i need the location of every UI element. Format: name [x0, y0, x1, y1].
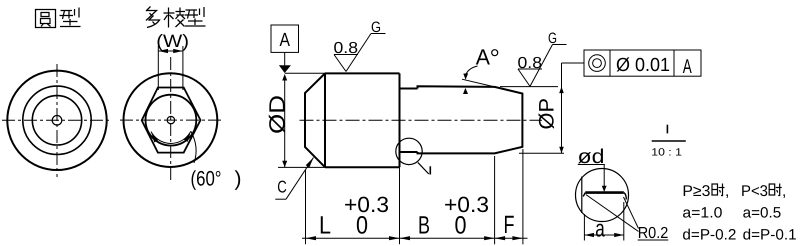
svg-text:P≥3: P≥3	[682, 183, 710, 200]
svg-text:ØP: ØP	[536, 98, 559, 130]
svg-text:(60°: (60°	[191, 168, 222, 191]
svg-text:P<3: P<3	[741, 183, 768, 200]
svg-text:10 : 1: 10 : 1	[651, 147, 682, 159]
svg-text:a=0.5: a=0.5	[743, 205, 782, 222]
svg-text:(W): (W)	[156, 31, 189, 51]
svg-text:0.8: 0.8	[518, 55, 543, 72]
svg-text:,: ,	[725, 183, 729, 200]
svg-text:ød: ød	[578, 146, 605, 168]
svg-text:C: C	[277, 178, 287, 197]
svg-text:L: L	[319, 212, 331, 240]
svg-text:a=1.0: a=1.0	[682, 205, 722, 222]
svg-text:ØD: ØD	[265, 95, 290, 134]
svg-text:A: A	[683, 56, 692, 78]
svg-text:Ø 0.01: Ø 0.01	[616, 55, 670, 76]
svg-text:B: B	[418, 212, 430, 240]
svg-text:d=P-0.2: d=P-0.2	[682, 227, 736, 244]
svg-text:A: A	[476, 45, 491, 70]
svg-text:G: G	[371, 19, 381, 36]
svg-text:a: a	[595, 216, 605, 243]
svg-text:+0.3: +0.3	[444, 192, 489, 217]
svg-text:R0.2: R0.2	[638, 225, 669, 242]
svg-text:d=P-0.1: d=P-0.1	[743, 227, 797, 244]
svg-text:0: 0	[455, 212, 467, 240]
svg-text:F: F	[504, 211, 515, 239]
svg-text:A: A	[280, 30, 291, 51]
svg-text:0.8: 0.8	[334, 40, 359, 57]
svg-text:0: 0	[356, 212, 368, 240]
svg-text:): )	[235, 168, 242, 191]
svg-text:G: G	[548, 30, 557, 47]
svg-text:,: ,	[782, 183, 786, 200]
